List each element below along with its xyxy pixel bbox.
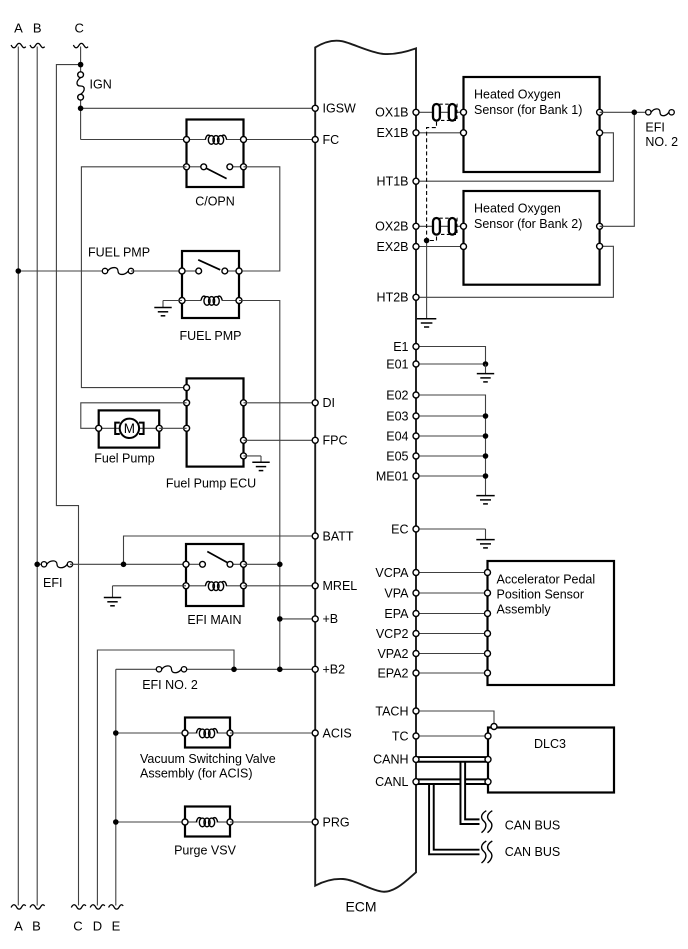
node: junction +B2 wire D (231, 667, 237, 673)
svg-text:IGSW: IGSW (323, 102, 357, 116)
wire FPC (244, 439, 316, 441)
ground at EC (476, 539, 494, 541)
ECM pin MREL (312, 583, 318, 589)
wire OX2B (416, 225, 464, 227)
ECM pin IGSW (312, 105, 318, 111)
wire EX1B (416, 132, 464, 134)
svg-text:Fuel Pump: Fuel Pump (94, 452, 154, 466)
ECM pin OX2B (413, 223, 419, 229)
ECM pin ME01 (413, 473, 419, 479)
wire PRG (230, 821, 315, 823)
relay FUEL PMP coil (182, 296, 239, 305)
ECM pin CANL (413, 779, 419, 785)
node: junction E05 (483, 453, 489, 459)
ECM pin VCPA (413, 570, 419, 576)
wire E03 (416, 415, 486, 417)
wire HT2B (416, 246, 613, 297)
relay C/OPN box (187, 120, 244, 188)
node: junction E03 (483, 413, 489, 419)
fuse EFI NO. 2 (right) (651, 109, 669, 116)
ECM pin BATT (312, 533, 318, 539)
svg-text:BATT: BATT (323, 529, 354, 543)
shield dashed line (bank1/bank2 sensor shield) (427, 122, 437, 241)
wire C branch to bottom (56, 65, 86, 910)
wire IGSW (81, 107, 316, 109)
relay EFI MAIN pins (183, 561, 189, 567)
svg-text:FUEL PMP: FUEL PMP (179, 329, 241, 343)
svg-text:VPA2: VPA2 (377, 647, 408, 661)
fuse EFI NO. 2 (left) (162, 666, 182, 673)
svg-text:VCPA: VCPA (375, 566, 409, 580)
svg-text:CAN BUS: CAN BUS (505, 845, 561, 859)
relay C/OPN switch (187, 164, 244, 179)
wire +B2 (116, 668, 315, 670)
fuse EFI (47, 561, 68, 568)
VSV Purge pins (182, 819, 188, 825)
relay EFI MAIN coil (186, 581, 244, 590)
svg-text:TC: TC (392, 729, 409, 743)
svg-text:EFI: EFI (645, 121, 664, 135)
relay EFI MAIN box (186, 544, 244, 606)
wire MREL (244, 585, 316, 587)
relay C/OPN pins (184, 137, 190, 143)
svg-text:C: C (75, 21, 84, 36)
wire CANH (twisted pair) (416, 756, 488, 763)
wire TACH (416, 711, 494, 728)
svg-text:NO. 2: NO. 2 (645, 135, 678, 149)
svg-text:E04: E04 (386, 429, 408, 443)
wire C/OPN switch to FUEL PMP relay (239, 167, 280, 271)
node: junction E04 (483, 433, 489, 439)
wire HT1B (416, 133, 613, 181)
wire A (11, 43, 26, 909)
svg-text:OX2B: OX2B (375, 220, 408, 234)
Heated Oxygen Sensor 1 pins (461, 109, 467, 115)
svg-text:E: E (112, 919, 121, 934)
wire VPA (416, 592, 488, 594)
wire B (30, 43, 45, 909)
svg-text:VPA: VPA (384, 586, 409, 600)
node: junction E1/E01 (483, 361, 489, 367)
ECM pin VPA2 (413, 651, 419, 657)
wire FUEL PMP coil to +B rail (239, 301, 280, 670)
svg-text:PRG: PRG (323, 815, 350, 829)
node: junction of wire C and branch (78, 62, 84, 68)
wire DI (244, 402, 316, 404)
svg-text:E01: E01 (386, 357, 408, 371)
wire E (109, 669, 124, 909)
svg-text:A: A (14, 21, 23, 36)
ECM body (315, 41, 416, 892)
Heated Oxygen Sensor (for Bank 1) box (464, 77, 600, 172)
wire shield to ground (426, 241, 428, 319)
wire E05 (416, 455, 486, 457)
node: junction on wire B (34, 562, 40, 568)
ECM pin HT2B (413, 294, 419, 300)
wire sensor1 to EFI NO.2 fuse (600, 111, 649, 113)
svg-text:E02: E02 (386, 388, 408, 402)
svg-text:+B: +B (323, 612, 339, 626)
wire VCP2 (416, 633, 488, 635)
Accelerator Pedal sensor pins (485, 570, 491, 576)
Heated Oxygen Sensor 2 pins (461, 223, 467, 229)
Fuel Pump ECU pins (184, 385, 190, 391)
svg-text:Purge VSV: Purge VSV (174, 844, 237, 858)
ECM pin FPC (312, 437, 318, 443)
connector (shielded, Bank 2) (434, 218, 457, 234)
wire C/OPN switch to Fuel Pump ECU (81, 167, 186, 388)
DLC3 pins (491, 724, 497, 730)
wire B to EFI fuse (37, 563, 44, 565)
svg-text:E03: E03 (386, 409, 408, 423)
svg-text:MREL: MREL (323, 579, 358, 593)
svg-text:Assembly (for ACIS): Assembly (for ACIS) (140, 767, 253, 781)
wire +B (280, 618, 315, 620)
ECM pin OX1B (413, 109, 419, 115)
wire VCPA (416, 572, 488, 574)
ECM pin E1 (413, 344, 419, 350)
Accelerator Pedal Position Sensor Assembly box (488, 561, 615, 685)
relay FUEL PMP box (182, 251, 239, 318)
svg-text:ACIS: ACIS (323, 726, 352, 740)
wire sensor2 to EFI NO.2 junction (600, 112, 635, 226)
node: junction +B rail top (277, 562, 283, 568)
ECM pin EPA2 (413, 670, 419, 676)
svg-text:D: D (93, 919, 102, 934)
svg-text:FUEL PMP: FUEL PMP (88, 246, 150, 260)
ECM pin +B (312, 616, 318, 622)
wire through fuel pump (99, 427, 160, 429)
VSV ACIS box (185, 718, 230, 748)
DLC3 box (488, 728, 614, 793)
ECM pin +B2 (312, 666, 318, 672)
wire E04 (416, 435, 486, 437)
ground at EFI MAIN coil (104, 586, 186, 606)
relay C/OPN coil (187, 135, 244, 144)
svg-text:Assembly: Assembly (497, 603, 552, 617)
wire BATT (124, 536, 316, 564)
ground at Fuel Pump ECU (244, 456, 270, 471)
wire FC (244, 139, 316, 141)
node: shield junction (424, 238, 430, 244)
wire C (top, to IGN fuse and C/OPN) (73, 43, 186, 139)
svg-text:EPA: EPA (384, 607, 409, 621)
ECM pin HT1B (413, 178, 419, 184)
ECM pin PRG (312, 819, 318, 825)
svg-text:E05: E05 (386, 449, 408, 463)
wire EPA2 (416, 672, 488, 674)
svg-text:C/OPN: C/OPN (195, 195, 235, 209)
wire ME01 (416, 475, 486, 477)
ECM pin EX2B (413, 244, 419, 250)
wire ACIS (230, 732, 315, 734)
wire CAN BUS branch from CANL (431, 782, 479, 852)
ECM pin EC (413, 526, 419, 532)
CAN BUS break symbol 1 (482, 811, 487, 833)
svg-text:OX1B: OX1B (375, 106, 408, 120)
ECM pin E04 (413, 433, 419, 439)
ground at ME01 (476, 495, 494, 497)
svg-text:E1: E1 (393, 340, 408, 354)
svg-text:A: A (14, 919, 23, 934)
ECM pin FC (312, 137, 318, 143)
svg-text:EPA2: EPA2 (377, 666, 408, 680)
relay FUEL PMP switch (182, 260, 239, 274)
svg-text:VCP2: VCP2 (376, 627, 409, 641)
ECM pin E01 (413, 361, 419, 367)
svg-text:EFI MAIN: EFI MAIN (187, 613, 241, 627)
ECM pin TACH (413, 708, 419, 714)
wire EX2B (416, 246, 464, 248)
svg-text:B: B (33, 21, 42, 36)
wire VPA2 (416, 653, 488, 655)
svg-text:EX1B: EX1B (377, 126, 409, 140)
wire ECU to fuel pump (81, 403, 187, 429)
svg-text:CANL: CANL (375, 775, 408, 789)
relay EFI MAIN switch (186, 552, 244, 568)
svg-text:Heated Oxygen: Heated Oxygen (474, 88, 561, 102)
ECM pin TC (413, 733, 419, 739)
Heated Oxygen Sensor (for Bank 2) box (464, 191, 600, 285)
node: junction EFI NO.2 feed (632, 110, 638, 116)
relay FUEL PMP pins (179, 268, 185, 274)
svg-text:FC: FC (323, 133, 340, 147)
node: junction wire E / PRG (113, 819, 119, 825)
svg-text:ECM: ECM (345, 899, 376, 915)
ECM pin E02 (413, 392, 419, 398)
motor M1 fuel pump (115, 419, 143, 438)
wire CAN BUS branch from CANH (463, 759, 480, 821)
wire fuel pump to ECU pin (159, 427, 186, 429)
svg-text:CAN BUS: CAN BUS (505, 819, 561, 833)
ECM pin E03 (413, 413, 419, 419)
wire OX1B (416, 111, 464, 113)
svg-text:HT1B: HT1B (377, 175, 409, 189)
svg-text:Sensor (for Bank 1): Sensor (for Bank 1) (474, 103, 582, 117)
wire E1 (416, 347, 486, 365)
node: junction +B2 rail (277, 667, 283, 673)
svg-text:Vacuum Switching Valve: Vacuum Switching Valve (140, 752, 276, 766)
fuse IGN (77, 78, 84, 95)
ECM pin DI (312, 400, 318, 406)
node: junction wire E / ACIS (113, 730, 119, 736)
wire A to FUEL PMP fuse (18, 270, 105, 272)
wire E01 (416, 363, 486, 365)
svg-text:FPC: FPC (323, 434, 348, 448)
VSV Purge box (185, 807, 230, 837)
VSV ACIS pins (182, 730, 188, 736)
wire E to ACIS VSV (116, 732, 185, 734)
wire EC (416, 529, 486, 540)
wire TC (416, 735, 488, 737)
svg-text:TACH: TACH (375, 704, 408, 718)
wire EFI MAIN switch to +B rail (244, 563, 280, 565)
Fuel Pump ECU box (187, 378, 244, 466)
node: junction +B (277, 616, 283, 622)
wire E to Purge VSV (116, 821, 185, 823)
svg-text:IGN: IGN (90, 78, 112, 92)
node: junction ME01 (483, 473, 489, 479)
svg-text:Heated Oxygen: Heated Oxygen (474, 202, 561, 216)
svg-text:ME01: ME01 (376, 469, 409, 483)
Fuel Pump assembly pins (96, 425, 102, 431)
svg-text:EX2B: EX2B (377, 240, 409, 254)
svg-text:EFI NO. 2: EFI NO. 2 (142, 678, 198, 692)
svg-text:B: B (32, 919, 41, 934)
ECM pin E05 (413, 453, 419, 459)
ECM pin EPA (413, 611, 419, 617)
ECM pin EX1B (413, 130, 419, 136)
svg-text:M: M (124, 421, 135, 436)
svg-text:Accelerator Pedal: Accelerator Pedal (497, 573, 596, 587)
ECM pin VPA (413, 590, 419, 596)
CAN BUS break symbol 2 (482, 841, 487, 863)
svg-text:Position Sensor: Position Sensor (497, 588, 585, 602)
wire EPA (416, 613, 488, 615)
fuse FUEL PMP (108, 268, 129, 275)
ECM pin CANH (413, 756, 419, 762)
svg-text:EFI: EFI (43, 576, 62, 590)
ground at E01 (477, 364, 494, 382)
wire FUEL PMP fuse to relay (131, 270, 182, 272)
svg-text:HT2B: HT2B (377, 291, 409, 305)
connector (shielded, Bank 1) (434, 104, 457, 120)
svg-text:Fuel Pump ECU: Fuel Pump ECU (166, 477, 256, 491)
svg-text:Sensor (for Bank 2): Sensor (for Bank 2) (474, 217, 582, 231)
node: junction on wire A (15, 268, 21, 274)
wire CANL (twisted pair) (416, 778, 488, 785)
svg-text:CANH: CANH (373, 753, 408, 767)
Fuel Pump assembly box (99, 410, 160, 447)
node: junction BATT branch (121, 562, 127, 568)
svg-text:DLC3: DLC3 (534, 737, 566, 751)
wire EFI fuse to EFI MAIN relay (70, 563, 186, 565)
ground at FUEL PMP relay coil (154, 301, 182, 316)
ECM pin ACIS (312, 730, 318, 736)
svg-text:DI: DI (323, 396, 336, 410)
ground (sensor shield) (417, 318, 436, 320)
wire D (90, 650, 234, 909)
node: junction IGN to IGSW (78, 106, 84, 112)
svg-text:EC: EC (391, 522, 408, 536)
ECM pin VCP2 (413, 631, 419, 637)
svg-text:+B2: +B2 (323, 663, 346, 677)
wire E02 (416, 395, 486, 496)
svg-text:C: C (73, 919, 82, 934)
